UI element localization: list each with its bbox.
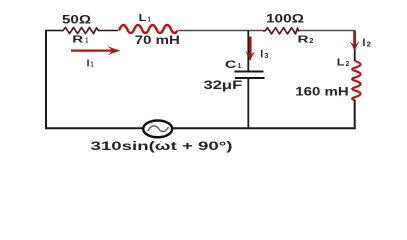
AC source V circle bbox=[143, 120, 172, 137]
AC source sine wave bbox=[148, 126, 169, 132]
resistor R2 bbox=[263, 28, 300, 34]
wire L1 to R2 (passes node) bbox=[178, 30, 263, 32]
svg-text:32μF: 32μF bbox=[204, 78, 243, 92]
svg-text:L: L bbox=[139, 12, 147, 24]
wire right vertical upper bbox=[354, 31, 356, 62]
wire R2 to right corner bbox=[300, 30, 356, 32]
svg-text:160 mH: 160 mH bbox=[295, 86, 348, 98]
svg-text:I: I bbox=[260, 49, 263, 61]
svg-text:100Ω: 100Ω bbox=[266, 13, 304, 25]
wire right vertical lower bbox=[354, 100, 356, 129]
inductor L2 bbox=[352, 61, 360, 100]
svg-text:310sin(ωt + 90°): 310sin(ωt + 90°) bbox=[91, 139, 233, 153]
svg-text:1: 1 bbox=[238, 61, 241, 70]
inductor L1 bbox=[119, 25, 177, 33]
svg-text:3: 3 bbox=[264, 51, 268, 60]
svg-text:1: 1 bbox=[91, 60, 94, 69]
svg-text:L: L bbox=[337, 57, 345, 69]
svg-text:2: 2 bbox=[346, 59, 350, 68]
svg-text:70 mH: 70 mH bbox=[135, 33, 180, 47]
svg-text:2: 2 bbox=[367, 40, 371, 49]
svg-text:50Ω: 50Ω bbox=[62, 14, 91, 26]
current arrow I3 bbox=[245, 37, 256, 62]
wire top: corner to R1 bbox=[45, 30, 61, 32]
svg-text:I: I bbox=[363, 37, 366, 49]
current arrow I2 bbox=[349, 31, 359, 52]
wire bottom left segment bbox=[45, 127, 143, 129]
wire R1 to L1 bbox=[100, 30, 118, 32]
resistor R1 bbox=[61, 27, 100, 33]
current arrow I1 bbox=[71, 46, 121, 56]
svg-text:C: C bbox=[225, 59, 237, 71]
capacitor C1 top plate bbox=[235, 71, 264, 73]
capacitor C1 bottom plate bbox=[235, 77, 265, 79]
wire left vertical bbox=[45, 31, 47, 129]
svg-text:1: 1 bbox=[148, 14, 151, 23]
node junction middle branch upper bbox=[247, 31, 249, 72]
svg-text:R: R bbox=[72, 34, 84, 46]
wire capacitor to bottom bbox=[247, 78, 249, 128]
svg-text:R: R bbox=[298, 34, 310, 46]
svg-text:I: I bbox=[87, 59, 90, 70]
wire bottom right segment bbox=[173, 127, 356, 129]
svg-text:2: 2 bbox=[309, 36, 313, 45]
svg-text:1: 1 bbox=[85, 36, 88, 45]
